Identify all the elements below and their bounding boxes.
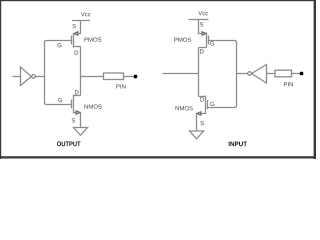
wire: Q1 drain lead — [74, 46, 81, 48]
label PMOS Q1 — [84, 37, 101, 41]
wire: R1 to pin dot — [124, 76, 134, 78]
label NMOS Q4 — [176, 106, 193, 110]
label D Q2 — [75, 90, 79, 94]
transistor Q4 NMOS (right) drain lead — [199, 96, 206, 98]
label OUTPUT — [57, 141, 80, 146]
transistor Q1 PMOS (left) channel — [73, 33, 75, 48]
Q3 source arrow — [202, 32, 206, 35]
wire: U1 output to gate line — [35, 76, 44, 78]
label PIN (left) — [116, 84, 125, 88]
Vcc rail (left) — [72, 20, 90, 22]
resistor R2 — [275, 70, 292, 77]
wire: Q1 source lead to Vcc — [74, 21, 81, 34]
transistor Q2 NMOS (left) gate bar — [71, 100, 73, 109]
wire: gate line (node G, left) — [45, 41, 72, 105]
label S Q4 — [200, 121, 203, 125]
pin dot (left) — [134, 75, 138, 79]
label G Q3 — [210, 41, 214, 45]
label S Q2 — [72, 118, 75, 122]
label S Q1 — [72, 24, 75, 28]
wire: Q2 source lead — [74, 113, 81, 128]
wire: gate line to inverter bubble — [237, 73, 248, 75]
wire: output tap — [81, 76, 104, 78]
Q4 source arrow — [197, 112, 201, 115]
pin dot (right) — [300, 72, 304, 76]
wire: Q3 drain lead — [199, 47, 207, 49]
label G Q2 — [58, 98, 62, 102]
border frame — [0, 0, 316, 159]
label Vcc (right) — [198, 11, 208, 15]
inverter U2 triangle — [251, 65, 266, 84]
wire: left input — [13, 76, 21, 78]
transistor Q1 PMOS (left) gate bar — [71, 36, 73, 45]
wire: U2 to resistor R2 — [267, 73, 276, 75]
transistor Q4 NMOS (right) gate bar — [207, 100, 209, 109]
label NMOS Q2 — [84, 104, 101, 108]
Q1 source arrow — [74, 32, 78, 35]
inverter U2 (input buffer) bubble — [248, 72, 252, 76]
ground (left) — [74, 128, 88, 136]
wire: gate line (node G, right) — [208, 41, 237, 108]
ground (right) — [190, 131, 204, 139]
label INPUT — [229, 142, 247, 147]
resistor R1 — [104, 73, 124, 80]
transistor Q3 PMOS (right) channel — [206, 33, 208, 48]
transistor Q2 NMOS (left) channel — [73, 95, 75, 114]
inverter U1 (output driver) — [21, 67, 32, 86]
wire: drain vertical (left) — [80, 47, 82, 96]
wire: right internal line — [163, 73, 199, 75]
Q2 source arrow — [76, 111, 80, 114]
label PIN (right) — [284, 82, 293, 86]
label G Q4 — [210, 102, 214, 106]
transistor Q4 NMOS (right) channel — [205, 96, 207, 115]
transistor Q2 NMOS (left) drain lead — [74, 95, 81, 97]
label D Q3 — [200, 49, 204, 53]
wire: R2 to pin dot — [292, 73, 300, 75]
wire: drain vertical (right) — [198, 48, 200, 97]
label Vcc (left) — [81, 12, 91, 16]
label G Q1 — [57, 43, 61, 47]
label S Q3 — [200, 22, 203, 26]
transistor Q3 PMOS (right) gate bar — [208, 36, 210, 45]
wire: Q3 source lead from Vcc — [199, 20, 207, 34]
wire: Q4 source lead — [197, 114, 206, 132]
label PMOS Q3 — [174, 38, 191, 42]
label D Q1 — [75, 51, 79, 55]
label D Q4 — [200, 97, 204, 101]
Vcc rail (right) — [189, 19, 209, 21]
